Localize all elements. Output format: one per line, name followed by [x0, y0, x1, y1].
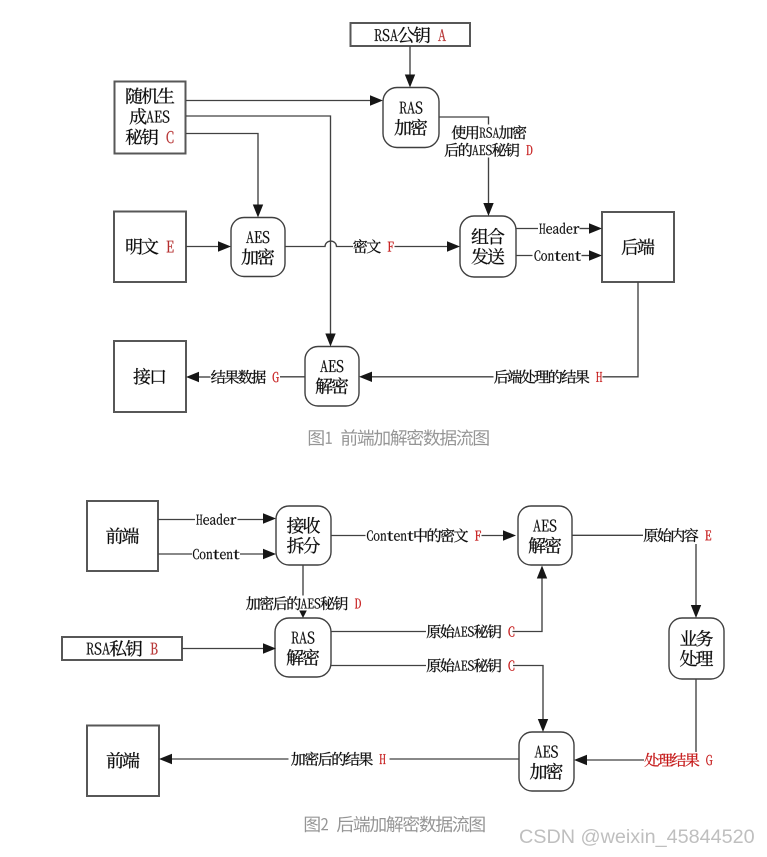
wire 业务处理 down — [695, 679, 697, 752]
label Header fig1 — [539, 223, 579, 234]
wire 接收拆分 down — [302, 565, 304, 596]
text 解密 — [287, 649, 319, 666]
text AES — [246, 231, 269, 243]
wire 随机生成 line1 to RAS加密 — [186, 100, 373, 102]
text 发送 — [472, 248, 505, 265]
arrowhead into AES加密 top fig2 — [538, 719, 548, 732]
wire RSA私钥 to RAS解密 — [182, 648, 265, 650]
text 前端 — [107, 752, 140, 768]
text 业务 — [680, 630, 713, 647]
text 加密 — [242, 248, 275, 265]
wire RAS解密 upper to 原始AES秘钥 — [331, 631, 426, 633]
wire 密文 left part with hop — [285, 241, 353, 246]
arrowhead into 接口 right — [186, 372, 199, 382]
process 组合发送 — [460, 216, 516, 277]
wire AES解密 to 结果数据 — [280, 376, 305, 378]
wire 密文 right part — [395, 246, 450, 248]
label 原始AES秘钥 C lower — [427, 658, 515, 672]
box RSA公钥 A — [351, 23, 471, 46]
box 接口 — [114, 341, 186, 412]
text 处理 — [680, 650, 713, 667]
wire down to AES加密 top fig2 — [513, 666, 543, 722]
arrowhead into AES解密 top — [325, 334, 335, 347]
label 处理结果 G — [645, 753, 713, 767]
text RAS — [400, 102, 423, 114]
box 前端 bottom fig2 — [87, 726, 159, 797]
label Content fig1 — [535, 250, 582, 260]
label Content中的密文 F — [367, 528, 481, 542]
wire 结果数据 to 接口 — [197, 376, 211, 378]
label Content fig2 — [193, 549, 240, 559]
label 加密后的AES秘钥 D — [246, 596, 361, 610]
label 后的AES秘钥 D — [445, 143, 533, 157]
text RAS — [292, 632, 315, 644]
wire Header right — [580, 228, 592, 230]
arrowhead into AES解密 left fig2 — [503, 530, 516, 540]
box 后端 — [602, 212, 674, 282]
label Header fig2 — [196, 514, 236, 525]
arrowhead into RAS加密 left — [370, 95, 383, 105]
wire 原始内容 down to 业务处理 — [695, 544, 697, 607]
text 解密 — [529, 537, 561, 554]
arrowhead into RAS加密 top — [405, 75, 415, 88]
text RSA公钥 A — [375, 27, 446, 43]
wire Header right fig2 — [238, 519, 265, 521]
label 后端处理的结果 H — [494, 370, 602, 384]
label 原始AES秘钥 C upper — [427, 624, 515, 638]
text RSA私钥 B — [87, 640, 158, 657]
label 加密后的结果 H — [291, 752, 385, 766]
text 秘钥 C — [126, 129, 174, 146]
process AES解密 fig2 — [518, 506, 572, 565]
box 明文 E — [114, 212, 186, 283]
text 成AES — [130, 108, 170, 125]
box 随机生成AES秘钥 C — [115, 82, 186, 154]
arrowhead into AES解密 right fig1 — [359, 372, 372, 382]
process 接收拆分 — [276, 506, 331, 565]
arrowhead Header into 后端 — [589, 223, 602, 233]
wire 随机生成 line2 down to AES解密 — [186, 116, 331, 336]
process RAS解密 — [275, 618, 331, 677]
arrowhead into RAS解密 top — [299, 611, 307, 619]
arrowhead into AES解密 bottom fig2 — [537, 566, 547, 579]
label 密文 F — [353, 239, 393, 253]
box RSA私钥 B — [62, 637, 182, 660]
arrowhead into AES加密 left — [218, 241, 231, 251]
wire Content right — [582, 255, 592, 257]
wire up to AES解密 bottom — [513, 577, 543, 632]
text 明文 E — [127, 238, 174, 255]
text AES — [320, 360, 343, 372]
wire 前端 Header left — [158, 519, 195, 521]
arrowhead into 业务处理 top — [691, 605, 701, 618]
wire 前端 Content left — [158, 553, 192, 555]
wire RAS解密 lower to 原始AES秘钥 — [331, 665, 426, 667]
text 组合 — [472, 228, 505, 245]
text 拆分 — [287, 537, 320, 554]
text 接收 — [287, 517, 320, 534]
label 结果数据 G — [211, 370, 279, 384]
text 前端 — [106, 528, 139, 544]
wire Header left — [516, 228, 538, 230]
wire 明文 to AES加密 — [186, 246, 221, 248]
text 加密 — [530, 763, 563, 780]
wire to AES解密 fig2 — [482, 535, 505, 537]
wire AES加密 to 加密后的结果 — [390, 758, 520, 760]
caption 图2 后端加解密数据流图 — [305, 816, 485, 833]
wire 后端 down and left — [603, 282, 639, 377]
process 业务处理 — [669, 618, 724, 679]
wire to 组合发送 lower — [488, 158, 490, 207]
arrowhead Content into 接收拆分 — [263, 549, 276, 559]
arrowhead Content into 后端 — [589, 250, 602, 260]
wire Content right fig2 — [240, 553, 265, 555]
wire RSA公钥 to RAS加密 — [409, 46, 411, 78]
label 原始内容 E — [644, 528, 711, 542]
box 前端 top fig2 — [87, 501, 158, 571]
arrowhead Header into 接收拆分 — [263, 513, 276, 523]
arrowhead into 前端 right fig2 — [159, 754, 172, 764]
text 后端 — [622, 239, 655, 255]
wire 加密后的结果 to 前端 — [171, 758, 289, 760]
process AES加密 fig1 — [231, 218, 285, 277]
arrowhead into 组合发送 left — [447, 241, 460, 251]
label 使用RSA加密 — [452, 125, 527, 139]
wire 处理结果 to AES加密 — [586, 759, 645, 761]
wire 随机生成 line3 down to AES加密 — [186, 134, 258, 208]
text 解密 — [316, 377, 348, 394]
process AES加密 fig2 — [519, 732, 574, 791]
wire AES解密 to 原始内容 — [572, 534, 643, 536]
text 随机生 — [127, 88, 175, 104]
process RAS加密 — [383, 88, 439, 148]
wire Content left — [516, 255, 533, 257]
text 加密 — [395, 119, 428, 136]
text AES — [535, 746, 558, 758]
watermark CSDN @weixin_45844520 — [519, 826, 755, 849]
arrowhead into AES加密 right fig2 — [574, 755, 587, 765]
wire RAS加密 to 组合发送 upper — [439, 117, 489, 125]
process AES解密 fig1 — [305, 347, 359, 407]
arrowhead into RAS解密 left — [263, 643, 276, 653]
text 接口 — [134, 368, 166, 385]
wire 接收拆分 to Content中的密文 — [331, 535, 366, 537]
arrowhead into AES加密 top fig1 — [253, 205, 263, 218]
wire to AES解密 right — [370, 376, 494, 378]
caption 图1 前端加解密数据流图 — [309, 429, 489, 446]
arrowhead into 组合发送 top — [483, 203, 493, 216]
text AES — [533, 520, 556, 532]
